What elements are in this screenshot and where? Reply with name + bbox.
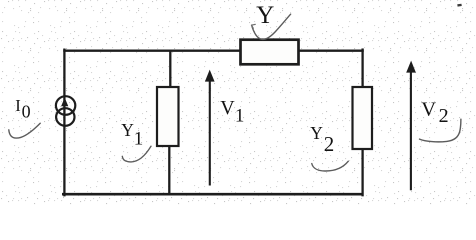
admittance box Y1 xyxy=(157,87,179,146)
annotation arc under I0 xyxy=(9,123,40,138)
annotation arc under V2 xyxy=(420,119,461,142)
wire: right branch upper segment (top rail to Y2) xyxy=(361,50,363,87)
label V2 xyxy=(421,98,448,127)
wire: top rail right segment (Y box to top-right corner) xyxy=(299,50,363,52)
voltage arrow V2 xyxy=(406,61,416,191)
annotation curved arrow under Y xyxy=(252,14,291,39)
annotation arc under Y2 xyxy=(312,161,349,171)
svg-text:Y: Y xyxy=(121,120,134,140)
label Y1 xyxy=(121,120,143,149)
wire: top rail left segment (top-left corner to Y box) xyxy=(64,50,240,52)
svg-text:2: 2 xyxy=(439,105,449,127)
label I0 xyxy=(15,96,30,122)
label V1 xyxy=(220,97,244,127)
admittance box Y2 xyxy=(353,87,373,149)
svg-text:0: 0 xyxy=(22,101,31,121)
wire: right branch lower segment (Y2 to bottom rail) xyxy=(361,149,363,195)
wire: bottom rail xyxy=(63,193,362,196)
svg-text:Y: Y xyxy=(256,2,274,29)
annotation arc under Y1 xyxy=(122,146,151,162)
voltage arrow V1 xyxy=(205,70,215,186)
wire: middle branch lower segment (Y1 to bottom rail) xyxy=(168,146,170,194)
current source I0 symbol: two overlapping circles with up arrow xyxy=(56,96,75,126)
svg-text:2: 2 xyxy=(324,132,335,156)
wire: middle branch upper segment (top rail junction to Y1) xyxy=(169,51,171,87)
svg-text:V: V xyxy=(421,98,436,120)
svg-text:Y: Y xyxy=(310,123,323,143)
svg-text:V: V xyxy=(220,97,235,119)
wire: left branch vertical (through current source I0) xyxy=(63,50,65,196)
admittance box Y (series) xyxy=(241,40,299,65)
svg-text:1: 1 xyxy=(134,128,144,149)
svg-text:I: I xyxy=(15,96,20,115)
label Y2 xyxy=(310,123,334,156)
svg-text:1: 1 xyxy=(235,105,245,126)
